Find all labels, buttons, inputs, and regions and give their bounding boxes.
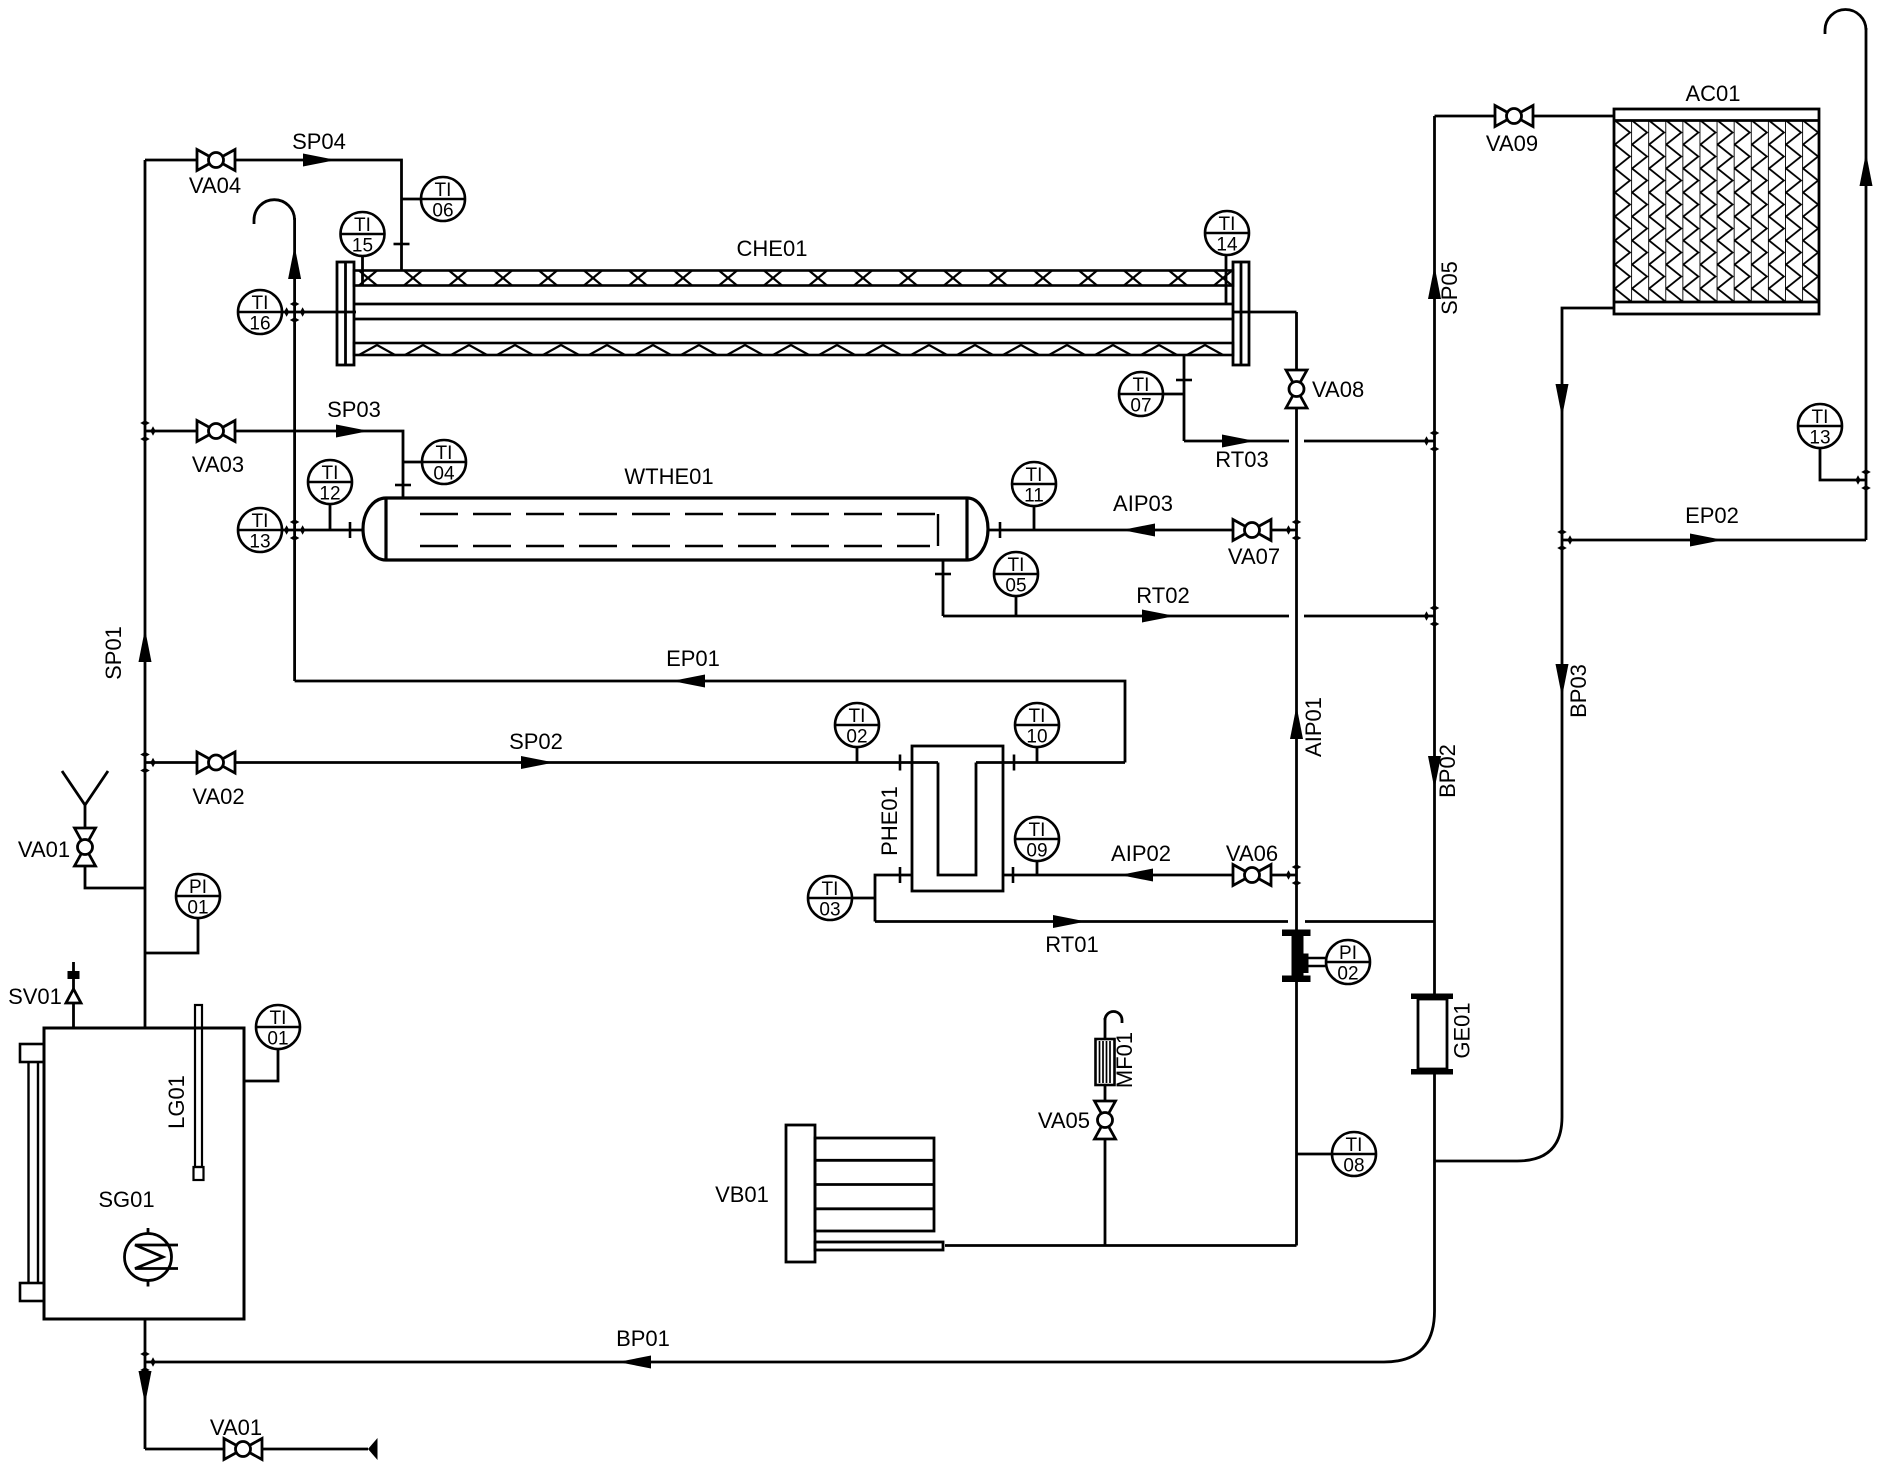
- sight glass GE01 body: [1418, 999, 1447, 1069]
- instrument TI02: [835, 703, 879, 748]
- svg-text:02: 02: [846, 727, 867, 748]
- svg-text:01: 01: [187, 898, 208, 919]
- svg-text:TI: TI: [1008, 555, 1025, 576]
- svg-text:16: 16: [249, 314, 270, 335]
- wire MF01 to vent hook: [1104, 1018, 1107, 1039]
- node junction RT02 - SP05 riser: [1430, 605, 1440, 610]
- plate heat exchanger PHE01 internal U channel: [938, 763, 976, 876]
- svg-text:AC01: AC01: [1685, 81, 1740, 106]
- node junction SP01-SP02: [140, 752, 150, 757]
- wire RT02 line: [943, 615, 1289, 618]
- node vent funnel Y: [62, 771, 108, 805]
- node junction RT03 - SP05 riser: [1430, 430, 1440, 435]
- wire VA09 line to AC01: [1435, 115, 1615, 118]
- node EP01 flow arrow: [672, 675, 705, 688]
- wire TI12 stem: [329, 504, 332, 530]
- instrument TI05: [994, 552, 1038, 597]
- svg-text:08: 08: [1343, 1156, 1364, 1177]
- instrument TI01: [256, 1005, 300, 1050]
- node AIP01 flow arrow: [1290, 706, 1303, 739]
- node SP04 flow arrow: [303, 154, 336, 167]
- svg-text:AIP01: AIP01: [1301, 697, 1326, 757]
- node RT03 flow arrow: [1222, 435, 1255, 448]
- safety valve SV01 stem: [72, 1003, 75, 1028]
- wire VA05 branch riser: [1104, 1139, 1107, 1246]
- svg-text:RT01: RT01: [1045, 932, 1098, 957]
- svg-text:TI: TI: [354, 215, 371, 236]
- steam generator SG01 vessel: [44, 1028, 244, 1319]
- node tick PHE01 bottom-right port: [1012, 867, 1015, 883]
- heat exchanger CHE01 right flange: [1233, 262, 1249, 365]
- wire EP01 line: [295, 681, 1125, 763]
- wire TI01 stem: [244, 1049, 278, 1081]
- wire TI09 stem: [1036, 861, 1039, 875]
- wire RT01 line after crossing: [1305, 920, 1435, 923]
- wire TI04 tap stub: [403, 461, 422, 464]
- svg-text:MF01: MF01: [1112, 1032, 1137, 1088]
- wire TI03 stub: [852, 897, 875, 900]
- wire SP05/BP02 riser: [1433, 116, 1436, 994]
- wire exhaust riser right: [1865, 28, 1868, 540]
- valve VA04: [197, 150, 235, 171]
- svg-text:PI: PI: [1339, 943, 1357, 964]
- node instrument tick on SP03 drop: [395, 484, 411, 487]
- node junction BP03 - EP02: [1557, 529, 1567, 534]
- instrument TI09: [1015, 817, 1059, 862]
- svg-text:03: 03: [819, 900, 840, 921]
- node instrument tick on WTHE01 outlet: [935, 573, 951, 576]
- svg-text:TI: TI: [849, 706, 866, 727]
- svg-text:SP03: SP03: [327, 397, 381, 422]
- wire RT02 line after crossing: [1304, 615, 1435, 618]
- svg-text:VA02: VA02: [192, 784, 244, 809]
- instrument TI13 (right): [1798, 404, 1842, 449]
- node SP05 flow arrow: [1428, 266, 1441, 299]
- svg-text:SP05: SP05: [1437, 261, 1462, 315]
- wire SP01 riser lower (tank bottom to drain): [144, 1319, 147, 1449]
- node exhaust flow arrow: [1860, 153, 1873, 186]
- svg-text:BP03: BP03: [1566, 664, 1591, 718]
- wire vent riser (EP01 return to hook): [293, 218, 296, 681]
- node junction tank outlet - BP01: [140, 1351, 150, 1356]
- wire VB01 outlet line: [945, 1244, 1297, 1247]
- svg-text:SG01: SG01: [98, 1187, 154, 1212]
- svg-text:VA06: VA06: [1226, 841, 1278, 866]
- wire EP02 line: [1562, 539, 1866, 542]
- svg-text:TI: TI: [252, 293, 269, 314]
- svg-text:VA05: VA05: [1038, 1108, 1090, 1133]
- svg-text:TI: TI: [1029, 820, 1046, 841]
- svg-text:EP01: EP01: [666, 646, 720, 671]
- svg-text:11: 11: [1024, 486, 1044, 507]
- svg-text:13: 13: [249, 532, 270, 553]
- valve VA07: [1233, 520, 1271, 541]
- level gauge LG01 bottom bob: [194, 1167, 204, 1180]
- wire AC01 outlet / BP03 riser: [1435, 308, 1615, 1161]
- svg-text:SV01: SV01: [8, 984, 62, 1009]
- wire CHE01 shell outlet drop: [1183, 356, 1186, 441]
- svg-text:VA08: VA08: [1312, 377, 1364, 402]
- svg-text:13: 13: [1809, 428, 1830, 449]
- valve VA08: [1286, 370, 1307, 408]
- wire VA01 to funnel: [84, 805, 87, 829]
- svg-text:15: 15: [352, 236, 373, 257]
- svg-text:EP02: EP02: [1685, 503, 1739, 528]
- svg-text:TI: TI: [436, 443, 453, 464]
- node junction exhaust riser - TI13 stub: [1861, 469, 1871, 474]
- svg-text:TI: TI: [1133, 375, 1150, 396]
- safety valve SV01 weight: [68, 971, 80, 979]
- svg-text:12: 12: [319, 484, 340, 505]
- node SP03 flow arrow: [336, 425, 369, 438]
- wire TI15 stem: [361, 256, 364, 286]
- svg-text:RT03: RT03: [1215, 447, 1268, 472]
- instrument TI14: [1205, 211, 1249, 256]
- node BP02 flow arrow: [1428, 756, 1441, 789]
- node RT02 flow arrow: [1142, 610, 1175, 623]
- blower VB01 slats body: [815, 1138, 934, 1231]
- drain line with valve VA01: [145, 1448, 368, 1451]
- svg-text:TI: TI: [1346, 1135, 1363, 1156]
- heater element in SG01: [125, 1234, 172, 1281]
- svg-text:CHE01: CHE01: [737, 236, 808, 261]
- valve VA03: [197, 421, 235, 442]
- svg-text:TI: TI: [270, 1008, 287, 1029]
- svg-text:VA07: VA07: [1228, 544, 1280, 569]
- svg-text:SP02: SP02: [509, 729, 563, 754]
- node AIP02 flow arrow: [1120, 869, 1153, 882]
- svg-text:TI: TI: [1026, 465, 1043, 486]
- svg-text:AIP02: AIP02: [1111, 841, 1171, 866]
- svg-text:BP02: BP02: [1435, 744, 1460, 798]
- svg-text:07: 07: [1130, 396, 1151, 417]
- air cooler AC01 header lines: [1614, 119, 1819, 122]
- wire TI07 stub: [1163, 393, 1184, 396]
- instrument TI12: [308, 460, 352, 505]
- wire TI08 stub: [1297, 1153, 1333, 1156]
- node junction vent riser x TI13 line: [290, 519, 300, 524]
- svg-text:TI: TI: [252, 511, 269, 532]
- node junction SP01-SP03: [140, 420, 150, 425]
- svg-text:TI: TI: [1029, 706, 1046, 727]
- wire CHE01 tube outlet to AIP01 riser: [1234, 311, 1297, 314]
- safety valve SV01 top line: [72, 962, 75, 989]
- heat exchanger WTHE01 internal tube (dashed): [420, 513, 938, 515]
- air cooler AC01 frame: [1614, 109, 1819, 314]
- node tick PHE01 top-left port: [899, 755, 902, 771]
- node drain end cap: [368, 1438, 378, 1460]
- wire SP01 riser upper: [144, 160, 147, 1028]
- wire TI06 tap stub: [402, 198, 422, 201]
- wire TI10 stem: [1036, 747, 1039, 763]
- svg-text:VA03: VA03: [192, 452, 244, 477]
- sight glass GE01 bottom flange: [1411, 1069, 1453, 1075]
- safety valve SV01 triangle: [66, 989, 81, 1003]
- instrument TI10: [1015, 703, 1059, 748]
- heat exchanger WTHE01 shell: [363, 498, 988, 560]
- wire VA01 vent branch: [85, 866, 145, 888]
- wire TI14 stem: [1225, 255, 1228, 304]
- svg-text:SP04: SP04: [292, 129, 346, 154]
- wire TI05 stem: [1015, 596, 1018, 616]
- wire riser below GE01 with bend into BP01: [1384, 1074, 1435, 1362]
- node exhaust hook: [1825, 9, 1866, 34]
- sight glass GE01 top flange: [1411, 994, 1453, 1000]
- plate heat exchanger PHE01 frame: [912, 746, 1003, 891]
- wire PI02 stub: [1306, 957, 1326, 959]
- instrument PI02: [1326, 940, 1370, 985]
- wire AIP02 line from PHE01 bottom-right: [1003, 874, 1297, 877]
- instrument TI03: [808, 876, 852, 921]
- svg-text:VA01: VA01: [18, 837, 70, 862]
- blower VB01 motor block: [786, 1125, 815, 1262]
- svg-text:VA09: VA09: [1486, 131, 1538, 156]
- node instrument tick on SP04 drop: [394, 243, 410, 246]
- node BP03 flow arrow lower: [1556, 664, 1569, 697]
- node AIP03 flow arrow: [1122, 524, 1155, 537]
- node junction vent riser x TI16 line: [290, 301, 300, 306]
- valve VA09: [1495, 106, 1533, 127]
- svg-text:PHE01: PHE01: [877, 786, 902, 856]
- svg-text:09: 09: [1026, 841, 1047, 862]
- svg-text:TI: TI: [322, 463, 339, 484]
- wire PHE01 cold inlet corner / TI03 branch: [875, 875, 912, 922]
- instrument TI15: [341, 212, 385, 257]
- instrument TI13 (left): [238, 508, 282, 553]
- sight glass tubes: [27, 1062, 29, 1283]
- node junction AIP02 - AIP01 riser: [1292, 864, 1302, 869]
- wire BP01 line: [145, 1361, 1384, 1364]
- wire PHE01 hot-side exit to EP01 riser: [976, 761, 1125, 764]
- wire SP04 line: [145, 160, 402, 271]
- level gauge LG01 well: [195, 1005, 202, 1167]
- blower VB01 outlet duct: [815, 1242, 943, 1250]
- instrument TI06: [421, 177, 465, 222]
- svg-text:06: 06: [432, 201, 453, 222]
- node BP03 flow arrow upper: [1556, 384, 1569, 417]
- node tick PHE01 bottom-left port: [899, 867, 902, 883]
- svg-text:SP01: SP01: [101, 626, 126, 680]
- svg-text:14: 14: [1216, 235, 1238, 256]
- svg-text:VB01: VB01: [715, 1182, 769, 1207]
- valve VA06: [1233, 865, 1271, 886]
- node BP01 flow arrow: [618, 1356, 651, 1369]
- heat exchanger CHE01 tube lines: [354, 303, 1233, 306]
- node SP01 flow arrow: [139, 629, 152, 662]
- svg-text:05: 05: [1005, 576, 1026, 597]
- wire TI11 stem: [1033, 506, 1036, 530]
- wire WTHE01 bottom outlet drop: [942, 560, 945, 616]
- svg-text:04: 04: [433, 464, 455, 485]
- instrument TI07: [1119, 372, 1163, 417]
- svg-text:TI: TI: [435, 180, 452, 201]
- node vent riser flow arrow: [288, 246, 301, 279]
- instrument TI11: [1012, 462, 1056, 507]
- heat exchanger CHE01 bottom hatched band: [354, 343, 1233, 355]
- heat exchanger CHE01 top hatched band: [354, 271, 1233, 286]
- wire TI13 to WTHE01 inlet dome: [282, 529, 365, 532]
- valve VA05: [1095, 1101, 1116, 1139]
- wire TI02 stem: [856, 747, 859, 763]
- svg-text:TI: TI: [822, 879, 839, 900]
- wire PI01 stem: [145, 918, 198, 953]
- valve VA02: [197, 752, 235, 773]
- node MF01 vent hook: [1105, 1012, 1122, 1024]
- node SP02 flow arrow: [521, 756, 554, 769]
- svg-text:PI: PI: [189, 877, 207, 898]
- sight glass top flange: [20, 1044, 44, 1062]
- wire VA05 to MF01: [1104, 1085, 1107, 1101]
- node junction AIP03 - AIP01 riser: [1292, 519, 1302, 524]
- air cooler AC01 fin matrix: [1614, 121, 1819, 303]
- node RT01 flow arrow: [1053, 915, 1086, 928]
- wire AIP03 line: [988, 529, 1297, 532]
- sight glass bottom flange: [20, 1283, 44, 1301]
- wire SP02 line to PHE01: [145, 761, 938, 764]
- node tick WTHE01 right port: [999, 522, 1002, 538]
- wire SP03 line: [145, 431, 403, 512]
- svg-text:TI: TI: [1219, 214, 1236, 235]
- wire TI16 to CHE01 tube inlet: [282, 311, 356, 314]
- svg-text:GE01: GE01: [1450, 1002, 1475, 1058]
- node EP02 flow arrow: [1690, 534, 1723, 547]
- svg-text:10: 10: [1026, 727, 1047, 748]
- wire RT03 line after crossing: [1304, 440, 1435, 443]
- pressure tap valve at PI02: [1282, 930, 1311, 937]
- wire RT01 line: [875, 920, 1288, 923]
- node instrument tick on shell outlet: [1176, 379, 1192, 382]
- svg-text:WTHE01: WTHE01: [624, 464, 713, 489]
- svg-text:RT02: RT02: [1136, 583, 1189, 608]
- wire TI13 (right) stub: [1820, 448, 1866, 480]
- svg-text:VA04: VA04: [189, 173, 241, 198]
- svg-text:LG01: LG01: [164, 1075, 189, 1129]
- svg-text:02: 02: [1337, 964, 1358, 985]
- valve VA01 (drain): [224, 1439, 262, 1460]
- instrument TI16: [238, 290, 282, 335]
- svg-text:VA01: VA01: [210, 1415, 262, 1440]
- filter MF01: [1096, 1039, 1115, 1085]
- node vent hook (swan neck): [254, 200, 295, 224]
- svg-text:TI: TI: [1812, 407, 1829, 428]
- wire RT03 line: [1184, 440, 1289, 443]
- valve VA01 (vent): [75, 828, 96, 866]
- svg-text:01: 01: [267, 1029, 288, 1050]
- svg-text:AIP03: AIP03: [1113, 491, 1173, 516]
- svg-text:BP01: BP01: [616, 1326, 670, 1351]
- heat exchanger CHE01 left flange: [337, 262, 354, 365]
- instrument TI08: [1332, 1132, 1376, 1177]
- instrument PI01: [176, 874, 220, 919]
- node tick PHE01 top-right port: [1013, 755, 1016, 771]
- wire AIP01 riser: [1295, 312, 1298, 1246]
- instrument TI04: [422, 440, 466, 485]
- node instrument tick on TI13 line: [349, 522, 352, 538]
- node SP01 drain arrow: [139, 1371, 152, 1404]
